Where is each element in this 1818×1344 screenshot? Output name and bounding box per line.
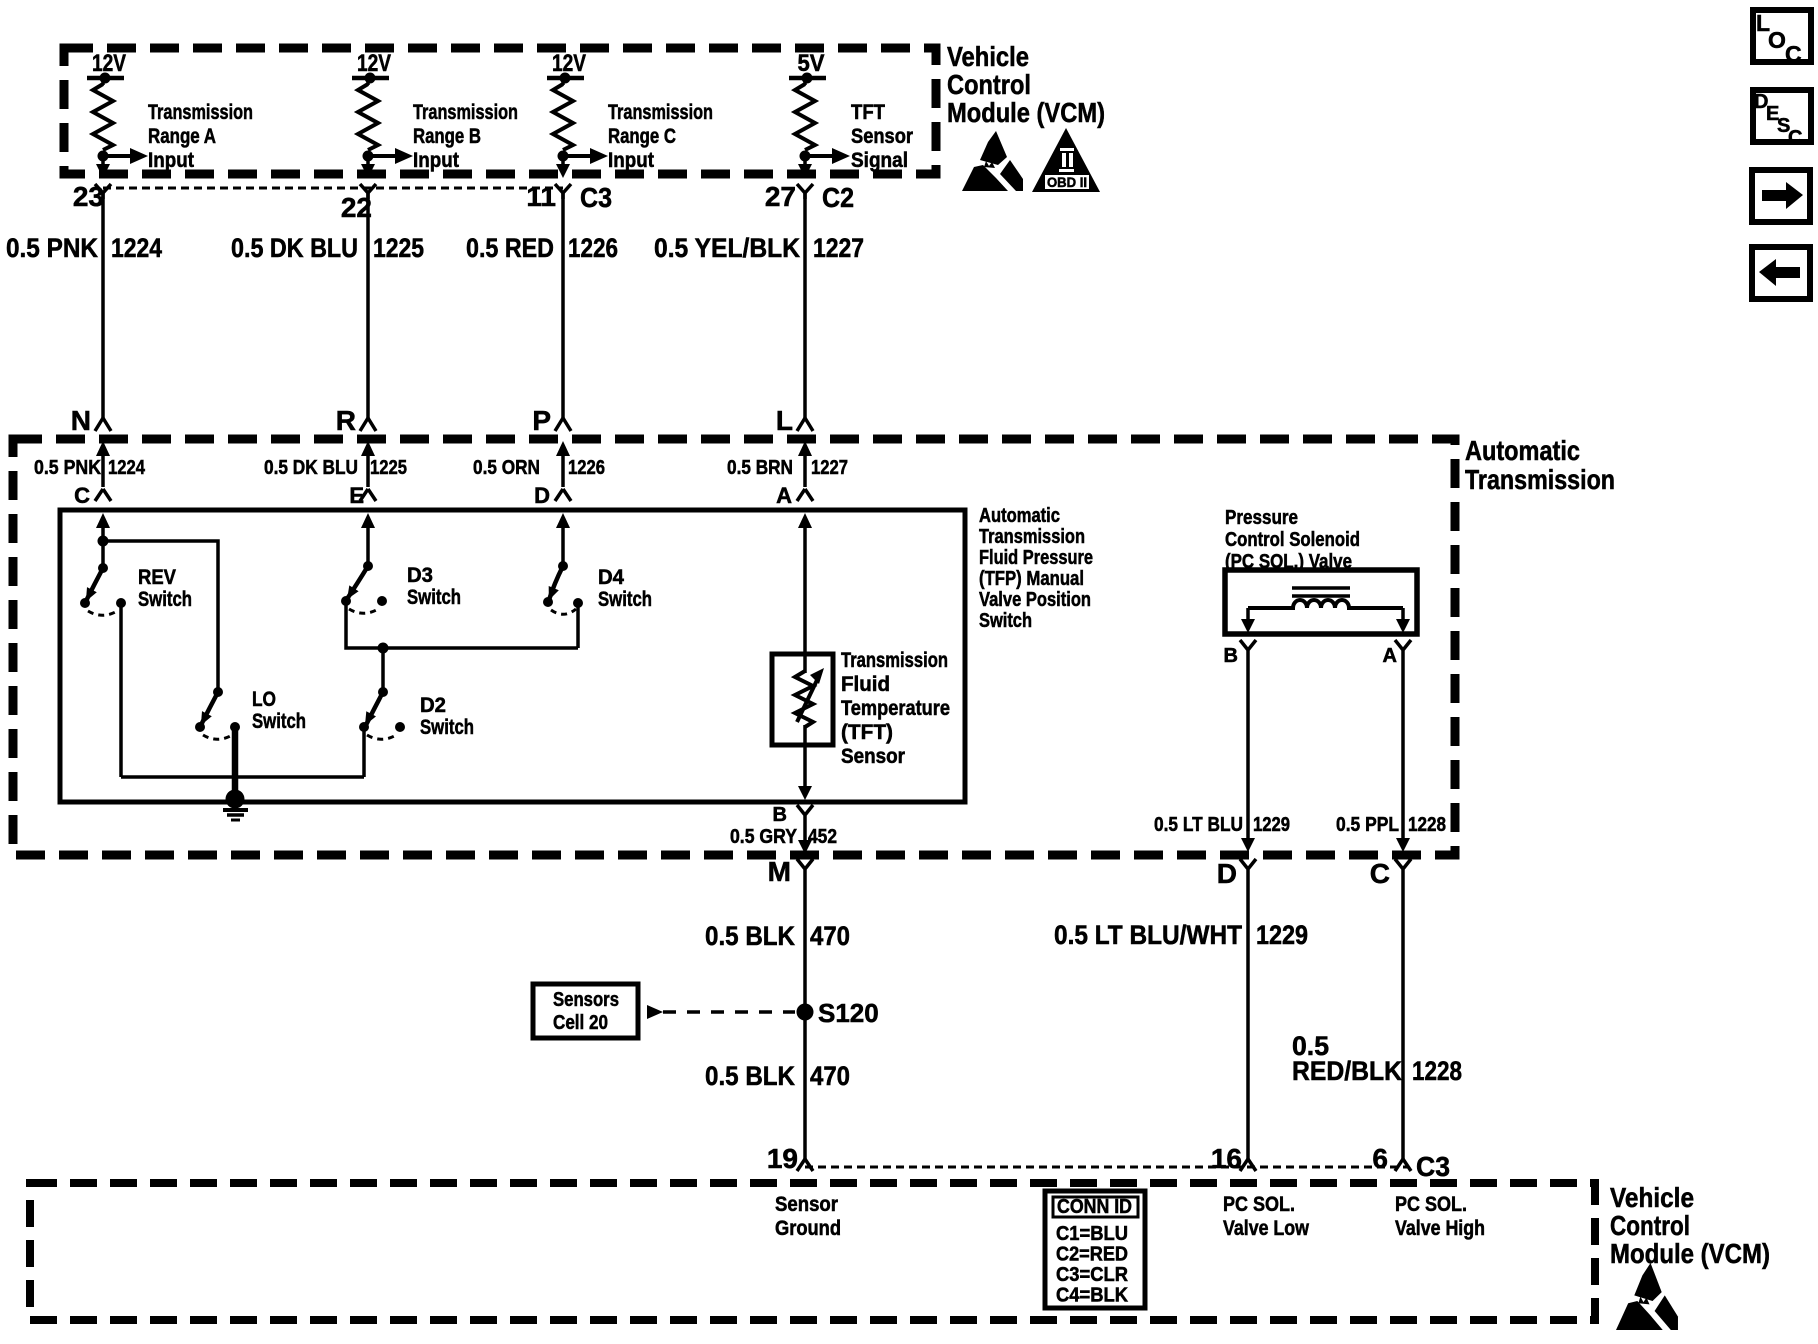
svg-text:A: A [776, 483, 792, 508]
connector pin B (TFP switch) [773, 804, 813, 826]
wire: P into transmission with up arrow [556, 441, 570, 487]
svg-text:1229: 1229 [1256, 920, 1308, 950]
connector pin C (TFP switch) [74, 483, 111, 508]
svg-text:B: B [773, 804, 787, 826]
svg-text:0.5 YEL/BLK: 0.5 YEL/BLK [654, 233, 800, 263]
svg-text:1229: 1229 [1253, 814, 1290, 836]
svg-text:0.5 PNK: 0.5 PNK [34, 457, 101, 479]
wire: pin 22 to pin R (0.5 DK BLU) [366, 193, 370, 418]
svg-text:470: 470 [810, 1061, 850, 1091]
wire: D2 contact down to ground bus [362, 727, 366, 777]
svg-text:1224: 1224 [111, 233, 162, 263]
wire: resistor to pin 22 with down arrow [361, 156, 375, 178]
svg-text:C: C [1785, 41, 1802, 67]
connector pin D (transmission bottom) [1217, 858, 1256, 889]
switch D3: throw arc (dashed) [349, 608, 380, 613]
wire label: 0.5 LT BLU/WHT 1229 [1054, 920, 1308, 950]
wire label: 0.5 LT BLU 1229 [1154, 814, 1290, 836]
svg-text:1224: 1224 [108, 457, 146, 479]
svg-text:M: M [768, 856, 791, 887]
wire: L into transmission with up arrow [798, 441, 812, 487]
svg-text:C1=BLUC2=REDC3=CLRC4=BLK: C1=BLUC2=REDC3=CLRC4=BLK [1056, 1223, 1129, 1307]
wire label: 0.5 DK BLU 1225 (inside) [264, 457, 407, 479]
wire: pin M to splice S120 [803, 877, 807, 1012]
svg-text:6: 6 [1372, 1143, 1388, 1174]
wire: pin E into TFP box with up arrow [361, 513, 375, 566]
node 12V supply (Range B) [352, 50, 391, 84]
switch D2: right contact [395, 722, 405, 732]
wire label: 0.5 ORN 1226 (inside) [473, 457, 605, 479]
svg-text:0.5 ORN: 0.5 ORN [473, 457, 540, 479]
svg-text:CONN ID: CONN ID [1057, 1196, 1132, 1218]
svg-text:C2: C2 [822, 182, 854, 213]
svg-text:0.5 BLK: 0.5 BLK [705, 921, 795, 951]
wire: pin 23 to pin N (0.5 PNK) [101, 193, 105, 418]
svg-text:1225: 1225 [370, 457, 407, 479]
wire label: 0.5 PNK 1224 (inside) [34, 457, 146, 479]
icon: ESD caution triangle (top) [962, 131, 1023, 191]
svg-text:470: 470 [810, 921, 850, 951]
wire: coil to pin B with down arrow [1241, 608, 1255, 633]
connector pin P [532, 405, 571, 436]
signal tap arrow: Transmission Range C Input [563, 148, 608, 164]
wire: junction to LO switch (L-shaped) [103, 541, 218, 692]
svg-text:0.5 PPL: 0.5 PPL [1336, 814, 1399, 836]
switch D4: throw arc (dashed) [551, 609, 576, 614]
wire: pin D into TFP box with up arrow [556, 513, 570, 566]
switch D3: pivot and blade [341, 561, 373, 606]
connector pin R [336, 405, 376, 436]
svg-text:A: A [1383, 645, 1397, 667]
svg-text:16: 16 [1211, 1143, 1242, 1174]
wire: TFT sensor to pin B with down arrow [798, 745, 812, 800]
switch REV: right contact [116, 598, 126, 608]
connector pin E (TFP switch) [349, 483, 376, 508]
svg-text:L: L [776, 405, 793, 436]
wire label: 0.5 PPL 1228 [1336, 814, 1446, 836]
thermistor: TFT sensing element [795, 654, 824, 745]
svg-text:1227: 1227 [813, 233, 864, 263]
svg-text:C: C [1788, 127, 1802, 149]
wire: solenoid B to transmission pin D [1241, 658, 1255, 852]
svg-text:D: D [534, 483, 550, 508]
wire: D4 contact down to D3 bus [576, 603, 580, 648]
wire: solenoid A to transmission pin C [1396, 658, 1410, 852]
wire label: 0.5 GRY 452 [730, 826, 837, 848]
svg-text:P: P [532, 405, 551, 436]
icon: OBD II triangle (top) [1032, 128, 1100, 192]
node 12V supply (Range C) [547, 50, 586, 84]
connector pin 19 [767, 1143, 813, 1174]
wire label: 0.5 DK BLU 1225 [231, 233, 424, 263]
reference arrow and dashed link to S120 [647, 1005, 795, 1019]
svg-text:0.5 GRY: 0.5 GRY [730, 826, 798, 848]
signal tap arrow: TFT Sensor Signal [805, 148, 850, 164]
wire: coil to pin A with down arrow [1396, 608, 1410, 633]
wire: bus junction down to D2 pivot [381, 648, 385, 692]
svg-text:R: R [336, 405, 356, 436]
connector pin 6 (C3) [1372, 1143, 1450, 1182]
connector pin M [768, 856, 813, 887]
switch LO: right contact [230, 722, 240, 732]
svg-text:0.5 DK BLU: 0.5 DK BLU [231, 233, 358, 263]
svg-text:1226: 1226 [568, 457, 605, 479]
resistor: TFT sensor pull-up [795, 78, 815, 162]
svg-text:12V: 12V [357, 50, 391, 77]
module box: Automatic Transmission (dashed) [13, 439, 1455, 855]
svg-text:SensorGround: SensorGround [775, 1193, 841, 1240]
wire label: 0.5 PNK 1224 [6, 233, 162, 263]
wire: D3 contact down and bus to D4 [346, 601, 578, 648]
connector pin A (TFP switch) [776, 483, 813, 508]
nav button: next arrow [1752, 170, 1810, 222]
switch LO: pivot and blade [195, 687, 223, 732]
wire: pin B to pin M with down arrow [798, 822, 812, 854]
wire label: 0.5 RED 1226 [466, 233, 618, 263]
nav button: DESC [1753, 90, 1811, 149]
svg-text:C3: C3 [580, 182, 612, 213]
switch REV: throw arc (dashed) [88, 610, 119, 615]
wire: resistor to pin 27 with down arrow [798, 156, 812, 178]
svg-text:0.5 PNK: 0.5 PNK [6, 233, 98, 263]
wire: solenoid low side to pin 16 [1246, 877, 1250, 1159]
wire label: 0.5 RED/BLK 1228 [1292, 1031, 1462, 1086]
svg-text:19: 19 [767, 1143, 798, 1174]
splice S120 [797, 998, 879, 1028]
wire label: 0.5 YEL/BLK 1227 [654, 233, 864, 263]
resistor: Transmission Range B pull-up [358, 78, 378, 162]
inductor L1: PC solenoid coil [1248, 600, 1403, 608]
wire: N into transmission with up arrow [96, 441, 110, 487]
wire: pin C into TFP box with up arrow [96, 513, 110, 541]
connector pin 22 [341, 184, 376, 223]
svg-text:N: N [71, 405, 91, 436]
nav button: LOC [1753, 10, 1811, 67]
switch D3: right contact [377, 596, 387, 606]
wire: pin 11 to pin P (0.5 RED) [561, 193, 565, 418]
connector pin 23 [73, 181, 111, 212]
svg-text:0.5 LT BLU/WHT: 0.5 LT BLU/WHT [1054, 920, 1242, 950]
svg-text:12V: 12V [552, 50, 586, 77]
wire: REV contact down to ground bus [119, 603, 123, 777]
svg-text:RED/BLK: RED/BLK [1292, 1056, 1402, 1086]
component box: TFT sensor [772, 654, 833, 745]
switch D2: pivot and blade [359, 687, 388, 732]
svg-text:1226: 1226 [568, 233, 618, 263]
connector pin C (transmission bottom) [1370, 858, 1411, 889]
legend box: CONN ID [1045, 1191, 1145, 1308]
svg-text:C: C [74, 483, 90, 508]
connector pin 16 [1211, 1143, 1256, 1174]
nav button: back arrow [1752, 247, 1810, 299]
component box: PC solenoid valve [1225, 570, 1417, 634]
wire: ground bus (REV/D2 to LO ground) [121, 775, 364, 779]
resistor: Transmission Range A pull-up [93, 78, 113, 162]
wire: resistor to pin 23 with down arrow [96, 156, 110, 178]
connector pin N [71, 405, 111, 436]
switch LO: throw arc (dashed) [203, 734, 234, 739]
svg-text:B: B [1224, 645, 1238, 667]
connector pin D (TFP switch) [534, 483, 571, 508]
node: REV switch feed junction [98, 536, 109, 547]
connector pin 27 (C2) [765, 181, 854, 213]
svg-text:12V: 12V [92, 50, 126, 77]
svg-text:1227: 1227 [811, 457, 848, 479]
node 5V supply (TFT) [789, 50, 826, 84]
wire: splice S120 to pin 19 [803, 1012, 807, 1159]
switch D2: throw arc (dashed) [367, 734, 398, 739]
svg-text:1228: 1228 [1412, 1056, 1462, 1086]
wire: junction to REV pivot [101, 541, 105, 568]
svg-text:5V: 5V [798, 50, 825, 77]
switch D4: pivot and blade [543, 561, 568, 607]
svg-text:0.5 RED: 0.5 RED [466, 233, 554, 263]
switch D4: right contact [573, 598, 583, 608]
signal tap arrow: Transmission Range A Input [103, 148, 148, 164]
svg-text:1228: 1228 [1408, 814, 1446, 836]
wire: R into transmission with up arrow [361, 441, 375, 487]
module box: Vehicle Control Module (VCM), top [64, 48, 936, 174]
ground: TFP switch case ground [223, 790, 248, 821]
switch REV: pivot and blade [80, 563, 108, 608]
svg-text:OBD II: OBD II [1047, 175, 1087, 190]
wire: resistor to pin 11 with down arrow [556, 156, 570, 178]
svg-text:C3: C3 [1416, 1151, 1450, 1182]
svg-text:1225: 1225 [373, 233, 424, 263]
wire label: 0.5 BRN 1227 (inside) [727, 457, 848, 479]
svg-text:0.5 BLK: 0.5 BLK [705, 1061, 795, 1091]
wire label: 0.5 BLK 470 (lower) [705, 1061, 850, 1091]
connector face dotted line (bottom VCM) [805, 1166, 1408, 1169]
connector pin A (PC solenoid) [1383, 640, 1411, 667]
node: D2 tap junction on bus [378, 643, 389, 654]
wire: LO contact to chassis ground (thick) [232, 727, 239, 798]
svg-text:23: 23 [73, 181, 104, 212]
inductor core lines [1292, 588, 1350, 596]
connector pin 11 (C3) [526, 181, 612, 213]
icon: ESD caution triangle (bottom) [1616, 1263, 1678, 1330]
module box: Vehicle Control Module (VCM), bottom [30, 1183, 1595, 1320]
svg-text:D: D [1217, 858, 1237, 889]
wire: pin A into TFP box with up arrow (TFT feed) [798, 513, 812, 654]
svg-text:E: E [349, 483, 364, 508]
reference box: Sensors Cell 20 [533, 984, 638, 1038]
wire label: 0.5 BLK 470 (upper) [705, 921, 850, 951]
signal tap arrow: Transmission Range B Input [368, 148, 413, 164]
svg-text:27: 27 [765, 181, 796, 212]
svg-text:11: 11 [526, 181, 556, 212]
svg-text:C: C [1370, 858, 1390, 889]
svg-text:S120: S120 [818, 998, 879, 1028]
svg-text:O: O [1768, 27, 1786, 53]
svg-text:0.5 LT BLU: 0.5 LT BLU [1154, 814, 1243, 836]
resistor: Transmission Range C pull-up [553, 78, 573, 162]
component box: TFP manual valve position switch [60, 510, 965, 802]
svg-text:0.5 DK BLU: 0.5 DK BLU [264, 457, 358, 479]
wire: pin 27 to pin L (0.5 YEL/BLK) [803, 193, 807, 418]
connector face dotted line (C3) [103, 187, 563, 190]
svg-text:0.5 BRN: 0.5 BRN [727, 457, 793, 479]
svg-text:452: 452 [808, 826, 837, 848]
connector pin B (PC solenoid) [1224, 640, 1256, 667]
wire: solenoid high side to pin 6 [1401, 877, 1405, 1159]
node 12V supply (Range A) [87, 50, 126, 84]
connector pin L [776, 405, 813, 436]
